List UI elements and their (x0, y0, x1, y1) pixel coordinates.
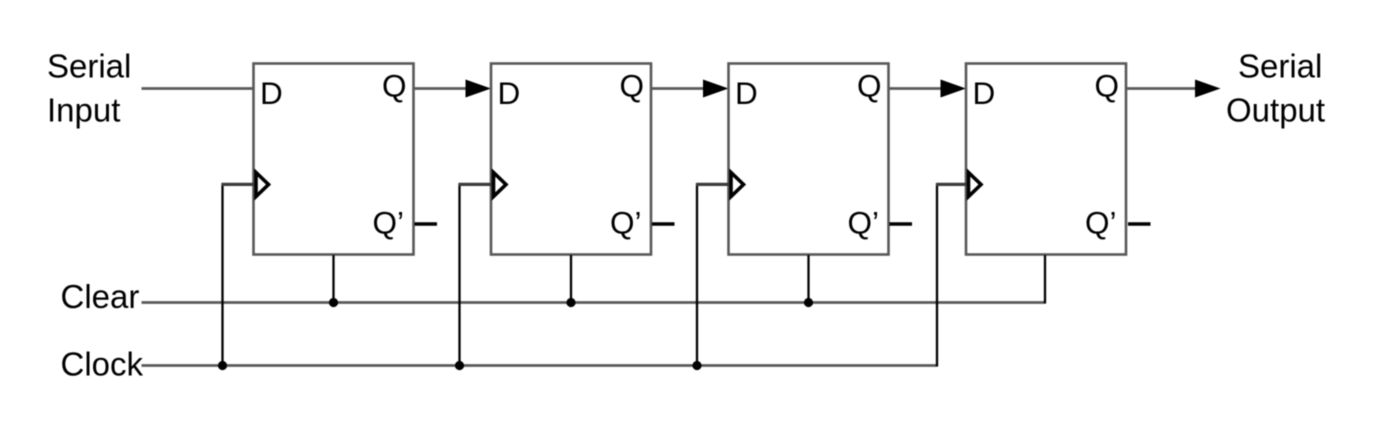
stub Clock into U4 (936, 183, 967, 186)
svg-text:Q’: Q’ (848, 205, 880, 241)
D flip-flop U4 (966, 64, 1126, 255)
svg-text:Q: Q (1095, 68, 1120, 104)
label Serial Input (47, 48, 131, 129)
svg-text:D: D (498, 75, 521, 111)
svg-text:Q: Q (382, 68, 407, 104)
clock edge triangle (U3) (731, 173, 744, 197)
svg-text:Serial: Serial (47, 48, 131, 85)
stub Q' output (U4) (1128, 222, 1151, 225)
wire U4 Q to serial output (1126, 87, 1196, 90)
wire U2 Q to U3 D (651, 87, 705, 90)
junction dot Clear/U3 (804, 298, 813, 307)
wire Clear drop from U3 bottom (807, 255, 809, 303)
wire Clear bus horizontal (142, 301, 1046, 304)
stub Clock into U3 (696, 183, 729, 186)
arrowhead serial output (1195, 80, 1221, 98)
arrowhead into U4 D (941, 80, 967, 98)
wire Clock riser to U4 clock (936, 184, 938, 367)
stub Clock into U1 (222, 183, 255, 186)
svg-text:Q: Q (620, 68, 645, 104)
svg-text:D: D (735, 75, 758, 111)
wire Clock riser to U1 clock (221, 184, 223, 366)
stub Q' output (U3) (890, 222, 913, 225)
svg-text:Output: Output (1226, 92, 1325, 129)
svg-text:D: D (260, 75, 283, 111)
svg-text:Q: Q (857, 68, 882, 104)
svg-text:Serial: Serial (1238, 48, 1322, 85)
svg-text:D: D (973, 75, 996, 111)
stub Clock into U2 (459, 183, 492, 186)
junction dot Clock/U1 (218, 361, 227, 370)
arrowhead into U2 D (466, 80, 492, 98)
wire U3 Q to U4 D (889, 87, 943, 90)
D flip-flop U1 (254, 64, 414, 255)
clock edge triangle (U4) (969, 173, 982, 197)
stub Q' output (U2) (652, 222, 675, 225)
wire Clock bus horizontal (142, 364, 938, 367)
clock edge triangle (U1) (256, 173, 269, 197)
wire U1 Q to U2 D (414, 87, 468, 90)
junction dot Clear/U2 (566, 298, 575, 307)
wire Clock riser to U3 clock (696, 184, 698, 366)
wire Clock riser to U2 clock (458, 184, 460, 366)
svg-text:Q’: Q’ (373, 205, 405, 241)
arrowhead into U3 D (703, 80, 729, 98)
junction dot Clock/U2 (455, 361, 464, 370)
clock edge triangle (U2) (494, 173, 507, 197)
D flip-flop U3 (729, 64, 889, 255)
label Serial Output (1226, 48, 1325, 129)
svg-text:Q’: Q’ (1085, 205, 1117, 241)
svg-text:Input: Input (47, 92, 120, 129)
svg-text:Clock: Clock (61, 346, 144, 383)
svg-text:Clear: Clear (61, 278, 140, 315)
wire Clear drop from U2 bottom (570, 255, 572, 303)
junction dot Clock/U3 (692, 361, 701, 370)
junction dot Clear/U1 (329, 298, 338, 307)
wire Clear riser to U4 bottom (1044, 255, 1046, 304)
wire serial input to U1 D (142, 87, 255, 90)
stub Q' output (U1) (415, 222, 438, 225)
svg-text:Q’: Q’ (610, 205, 642, 241)
D flip-flop U2 (491, 64, 651, 255)
wire Clear drop from U1 bottom (332, 255, 334, 303)
